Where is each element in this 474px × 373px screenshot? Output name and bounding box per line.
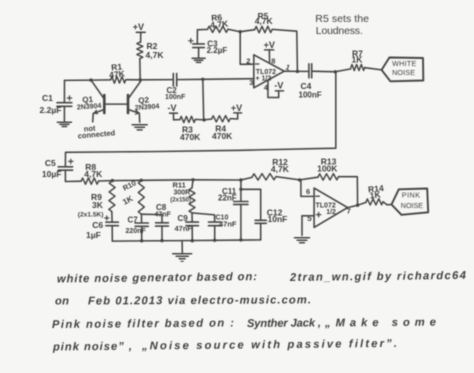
svg-text:1K: 1K (121, 194, 134, 207)
svg-text:8: 8 (271, 57, 275, 66)
svg-text:220nF: 220nF (126, 228, 147, 235)
svg-text:47nF: 47nF (219, 220, 237, 229)
svg-text:„Noise source with passive fil: „Noise source with passive filter”. (141, 338, 397, 353)
svg-text:47nF: 47nF (175, 224, 193, 233)
svg-text:WHITE: WHITE (392, 59, 417, 68)
svg-text:on: on (55, 296, 69, 308)
svg-text:PINK: PINK (402, 191, 421, 200)
svg-text:2tran_wn.gif by richardc64: 2tran_wn.gif by richardc64 (289, 270, 467, 284)
svg-text:Synther Jack ,: Synther Jack , (247, 317, 321, 330)
svg-text:4,7K: 4,7K (255, 16, 274, 26)
svg-text:(2x1.5K): (2x1.5K) (78, 212, 104, 219)
svg-text:6: 6 (306, 187, 310, 196)
svg-text:C5: C5 (45, 158, 56, 168)
svg-text:100nF: 100nF (165, 94, 186, 101)
svg-text:2.2µF: 2.2µF (207, 46, 228, 55)
svg-text:3K: 3K (92, 200, 104, 210)
svg-text:Pink noise filter based on :: Pink noise filter based on : (52, 317, 234, 331)
svg-text:NOISE: NOISE (392, 68, 415, 77)
svg-text:470K: 470K (180, 132, 201, 142)
svg-text:10µF: 10µF (42, 169, 62, 179)
svg-text:2N3904: 2N3904 (135, 103, 160, 112)
svg-text:1µF: 1µF (86, 230, 101, 240)
svg-text:-V: -V (168, 103, 177, 113)
svg-text:47K: 47K (109, 68, 126, 80)
svg-text:C4: C4 (301, 81, 312, 91)
svg-text:Loudness.: Loudness. (316, 25, 364, 37)
svg-text:(2x150): (2x150) (170, 197, 191, 203)
svg-text:4,7K: 4,7K (271, 164, 290, 174)
svg-text:4,7K: 4,7K (84, 169, 103, 179)
svg-text:C7: C7 (128, 216, 139, 225)
svg-text:C1: C1 (42, 93, 53, 103)
svg-text:C9: C9 (178, 214, 189, 223)
svg-text:1/2: 1/2 (326, 209, 336, 216)
svg-text:pink noise” ,: pink noise” , (52, 341, 132, 354)
svg-text:2.2µF: 2.2µF (40, 105, 62, 115)
svg-text:22nF: 22nF (218, 194, 237, 203)
svg-text:2N3904: 2N3904 (77, 103, 102, 112)
svg-text:3: 3 (249, 78, 253, 87)
svg-text:10nF: 10nF (268, 214, 288, 224)
svg-text:+ 1/2: + 1/2 (256, 76, 272, 83)
svg-text:300R: 300R (174, 190, 191, 197)
svg-text:4,7K: 4,7K (210, 18, 230, 30)
svg-text:C6: C6 (92, 220, 103, 230)
svg-text:47nF: 47nF (155, 212, 172, 219)
svg-text:NOISE: NOISE (401, 201, 424, 210)
svg-text:1K: 1K (369, 189, 382, 200)
svg-text:470K: 470K (212, 131, 233, 141)
svg-text:100K: 100K (317, 164, 338, 174)
svg-text:connected: connected (77, 128, 116, 140)
svg-text:„Make some: „Make some (324, 317, 436, 330)
svg-text:4,7K: 4,7K (146, 50, 165, 60)
svg-text:+V: +V (133, 22, 144, 32)
svg-text:+V: +V (264, 40, 275, 50)
svg-text:R5 sets the: R5 sets the (315, 13, 369, 25)
svg-text:R11: R11 (173, 181, 186, 190)
svg-text:white noise generator based on: white noise generator based on: (57, 271, 257, 285)
svg-text:2: 2 (246, 57, 250, 66)
svg-text:100nF: 100nF (299, 91, 322, 100)
svg-text:-V: -V (274, 81, 283, 91)
svg-text:1K: 1K (352, 55, 364, 65)
svg-text:+V: +V (231, 103, 242, 113)
svg-text:Feb 01.2013 via electro-music.: Feb 01.2013 via electro-music.com. (88, 294, 311, 307)
